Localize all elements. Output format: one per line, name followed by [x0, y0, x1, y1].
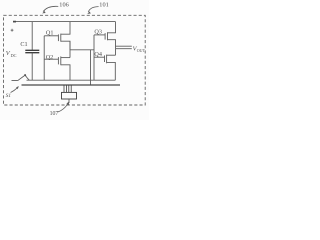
svg-text:C1: C1 — [20, 41, 27, 48]
control block 107 body — [62, 92, 77, 99]
wire: top supply rail — [13, 21, 116, 23]
wire: left half-bridge midpoint vertical — [69, 41, 71, 57]
transistor Q3 drain lead — [108, 22, 116, 33]
svg-text:Q4: Q4 — [94, 51, 102, 58]
wire: upper bottom rail — [27, 79, 116, 81]
wire: midpoint to right stage at y=50 — [70, 49, 94, 51]
wire: left gate line — [43, 36, 45, 80]
transistor Q1 gate lead — [44, 35, 58, 37]
svg-text:Q1: Q1 — [46, 30, 54, 37]
dashed enclosure box 106 — [4, 15, 146, 105]
svg-text:101: 101 — [99, 1, 108, 8]
wire: midpoint drop to lower bus — [90, 50, 92, 85]
svg-text:OUT: OUT — [137, 48, 146, 53]
transistor Q4 source lead — [107, 62, 116, 80]
wire: lower bottom bus — [22, 84, 121, 86]
transistor Q4 gate lead — [94, 56, 105, 58]
transistor Q1 channel bar — [60, 34, 62, 42]
capacitor C1 top wire — [31, 22, 33, 50]
transistor Q1 gate bar — [57, 34, 59, 41]
switch S1 contact dot — [24, 74, 26, 76]
transistor Q3 source lead — [108, 40, 116, 49]
plus polarity mark — [11, 29, 14, 32]
capacitor C1 plates — [25, 50, 39, 52]
svg-text:106: 106 — [59, 2, 68, 9]
transistor Q1 source lead — [61, 41, 70, 50]
svg-text:107: 107 — [50, 111, 59, 117]
wire: right gate line — [93, 35, 95, 80]
transistor Q4 channel bar — [106, 55, 108, 64]
transistor Q3 channel bar — [107, 32, 109, 40]
control block pins — [64, 85, 71, 92]
capacitor C1 bottom wire — [31, 53, 33, 80]
transistor Q2 gate lead — [44, 58, 58, 60]
svg-text:S1: S1 — [6, 93, 12, 99]
transistor Q3 gate lead — [94, 34, 105, 36]
output double wire to Vout — [116, 46, 132, 49]
transistor Q3 gate bar — [104, 33, 106, 40]
svg-text:Q3: Q3 — [94, 28, 102, 35]
label 106 leader arrow — [43, 6, 58, 11]
label 101 leader arrow — [88, 7, 98, 12]
transistor Q4 gate bar — [104, 55, 106, 62]
svg-text:Q2: Q2 — [46, 54, 54, 61]
transistor Q2 source lead — [61, 65, 70, 80]
switch S1 lever — [18, 76, 25, 81]
switch S1 left stub — [12, 80, 18, 82]
transistor Q1 drain lead — [61, 22, 70, 35]
wire: right half-bridge midpoint vertical — [115, 49, 117, 56]
transistor Q2 drain lead — [61, 57, 70, 59]
control block bottom lead — [68, 99, 70, 103]
transistor Q2 gate bar — [57, 57, 59, 64]
transistor Q4 drain lead — [107, 54, 116, 56]
label 107 leader arrow — [58, 104, 68, 112]
transistor Q2 channel bar — [60, 56, 62, 65]
switch S1 output connector — [26, 76, 30, 80]
label S1 leader arrow — [11, 88, 18, 93]
svg-text:DC: DC — [11, 53, 17, 58]
